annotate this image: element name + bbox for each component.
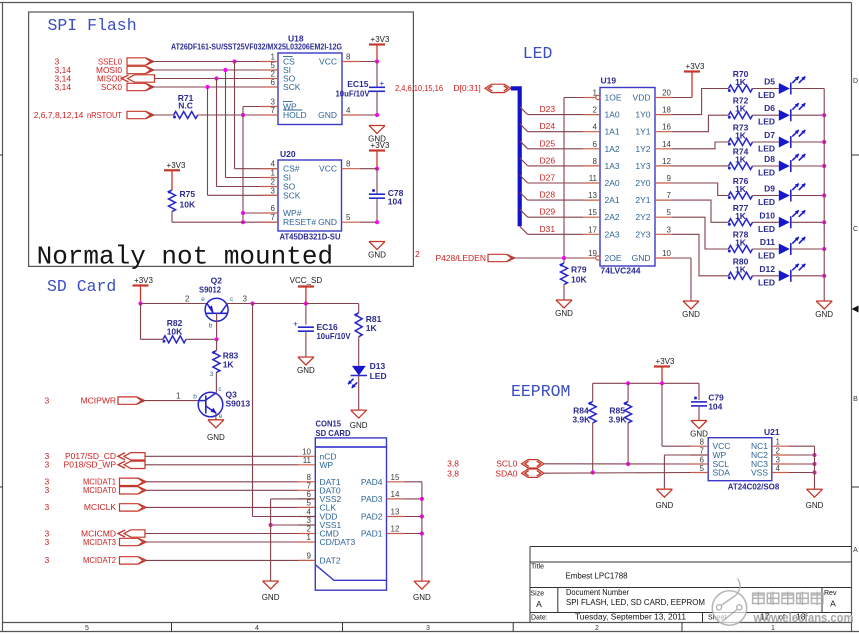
svg-text:2: 2 — [595, 625, 599, 632]
svg-text:104: 104 — [708, 402, 722, 412]
svg-text:1Y0: 1Y0 — [635, 110, 650, 120]
svg-text:D29: D29 — [540, 207, 556, 217]
svg-text:LED: LED — [758, 117, 775, 127]
svg-text:1OE: 1OE — [605, 93, 622, 103]
svg-text:2A2: 2A2 — [605, 212, 620, 222]
svg-text:nRSTOUT: nRSTOUT — [87, 110, 122, 120]
svg-text:8: 8 — [346, 160, 351, 169]
svg-text:R79: R79 — [571, 265, 587, 275]
svg-text:2A3: 2A3 — [605, 229, 620, 239]
svg-text:DAT2: DAT2 — [320, 555, 341, 565]
svg-text:6: 6 — [593, 140, 598, 149]
svg-text:4: 4 — [271, 160, 276, 169]
svg-text:11: 11 — [303, 456, 312, 465]
svg-text:b: b — [209, 323, 213, 330]
svg-text:14: 14 — [662, 140, 671, 149]
svg-text:GND: GND — [555, 309, 573, 318]
svg-text:MCIDAT3: MCIDAT3 — [83, 537, 116, 547]
svg-text:AT26DF161-SU/SST25VF032/MX25L0: AT26DF161-SU/SST25VF032/MX25L03206EM2I-1… — [171, 42, 342, 52]
svg-text:VCC: VCC — [319, 164, 337, 174]
svg-text:1A3: 1A3 — [605, 161, 620, 171]
svg-text:AT45DB321D-SU: AT45DB321D-SU — [280, 232, 341, 242]
svg-text:MCIPWR: MCIPWR — [81, 396, 116, 406]
svg-text:HOLD: HOLD — [283, 110, 307, 120]
svg-text:20: 20 — [662, 89, 671, 98]
svg-text:6: 6 — [271, 204, 276, 213]
svg-text:PAD3: PAD3 — [361, 494, 383, 504]
svg-text:1: 1 — [176, 392, 181, 401]
svg-text:LED: LED — [370, 371, 387, 381]
svg-text:A: A — [830, 599, 836, 609]
svg-text:PAD4: PAD4 — [361, 477, 383, 487]
svg-text:Q2: Q2 — [211, 276, 223, 286]
svg-text:D9: D9 — [764, 184, 775, 194]
svg-text:3: 3 — [45, 537, 50, 547]
svg-text:SCL0: SCL0 — [496, 459, 518, 469]
svg-text:EC15: EC15 — [347, 79, 369, 89]
svg-text:18: 18 — [662, 106, 671, 115]
svg-text:D25: D25 — [540, 138, 556, 148]
svg-text:3,14: 3,14 — [55, 82, 72, 92]
svg-text:2,4,6,10,15,16: 2,4,6,10,15,16 — [395, 83, 443, 93]
svg-text:D12: D12 — [759, 264, 775, 274]
svg-text:4: 4 — [255, 625, 259, 632]
svg-text:11: 11 — [589, 174, 598, 183]
svg-text:Title: Title — [531, 564, 544, 571]
svg-text:D8: D8 — [764, 154, 775, 164]
svg-text:Normaly not mounted: Normaly not mounted — [37, 242, 333, 272]
svg-text:1K: 1K — [735, 77, 747, 87]
svg-text:S9012: S9012 — [199, 285, 221, 295]
svg-text:5: 5 — [700, 464, 705, 473]
svg-text:CD/DAT3: CD/DAT3 — [320, 537, 356, 547]
svg-text:U19: U19 — [601, 76, 617, 86]
svg-text:7: 7 — [700, 447, 705, 456]
svg-text:16: 16 — [662, 123, 671, 132]
svg-text:13: 13 — [391, 508, 400, 517]
svg-text:19: 19 — [588, 249, 597, 258]
svg-text:4: 4 — [346, 106, 351, 115]
svg-text:3: 3 — [667, 225, 672, 234]
svg-text:Rev: Rev — [824, 590, 837, 597]
svg-text:WP: WP — [320, 460, 334, 470]
svg-text:1A1: 1A1 — [605, 127, 620, 137]
svg-text:2Y2: 2Y2 — [635, 212, 650, 222]
svg-text:2: 2 — [271, 178, 276, 187]
svg-text:7: 7 — [667, 191, 672, 200]
svg-text:S9013: S9013 — [226, 399, 251, 409]
svg-text:D[0:31]: D[0:31] — [453, 83, 480, 93]
svg-text:74LVC244: 74LVC244 — [601, 266, 641, 276]
svg-text:MCIDAT2: MCIDAT2 — [83, 555, 116, 565]
svg-text:8: 8 — [346, 53, 351, 62]
svg-text:GND: GND — [656, 501, 674, 510]
svg-text:+: + — [380, 79, 385, 88]
svg-text:LED: LED — [758, 251, 775, 261]
svg-text:2: 2 — [776, 447, 781, 456]
svg-text:SD CARD: SD CARD — [316, 428, 351, 438]
svg-text:12: 12 — [391, 525, 400, 534]
svg-text:D31: D31 — [540, 224, 556, 234]
svg-text:www.elecfans.com: www.elecfans.com — [753, 611, 854, 625]
svg-text:+3V3: +3V3 — [167, 161, 186, 170]
svg-text:GND: GND — [368, 251, 386, 260]
svg-text:2: 2 — [593, 106, 598, 115]
svg-text:14: 14 — [391, 490, 400, 499]
svg-text:1: 1 — [593, 89, 598, 98]
svg-text:EEPROM: EEPROM — [511, 382, 570, 401]
svg-text:3.9K: 3.9K — [609, 414, 628, 424]
svg-text:1K: 1K — [735, 211, 747, 221]
svg-text:2A1: 2A1 — [605, 195, 620, 205]
svg-text:VDD: VDD — [633, 93, 651, 103]
svg-text:B: B — [853, 396, 858, 403]
svg-text:1K: 1K — [735, 238, 747, 248]
svg-text:SCK0: SCK0 — [101, 82, 122, 92]
svg-text:2,6,7,8,12,14: 2,6,7,8,12,14 — [34, 110, 84, 120]
svg-text:3: 3 — [45, 555, 50, 565]
svg-text:GND: GND — [318, 217, 337, 227]
svg-text:10K: 10K — [571, 275, 587, 285]
svg-text:3: 3 — [271, 186, 276, 195]
svg-text:LED: LED — [523, 44, 553, 63]
svg-text:GND: GND — [207, 433, 225, 442]
svg-text:U20: U20 — [280, 149, 296, 159]
svg-text:+: + — [293, 320, 298, 329]
svg-text:SCK: SCK — [283, 82, 301, 92]
svg-text:10uF/10V: 10uF/10V — [336, 89, 370, 99]
svg-text:b: b — [193, 394, 197, 401]
svg-text:C: C — [853, 226, 858, 233]
svg-text:10K: 10K — [167, 327, 183, 337]
svg-text:1K: 1K — [735, 155, 747, 165]
svg-text:1: 1 — [271, 169, 276, 178]
svg-text:A: A — [853, 547, 858, 554]
svg-text:15: 15 — [588, 208, 597, 217]
svg-text:4: 4 — [593, 123, 598, 132]
svg-text:15: 15 — [391, 473, 400, 482]
svg-text:1: 1 — [771, 625, 775, 632]
svg-text:PAD2: PAD2 — [361, 512, 383, 522]
svg-text:e: e — [201, 296, 205, 303]
svg-text:SDA: SDA — [713, 468, 731, 478]
svg-text:MCIDAT0: MCIDAT0 — [83, 485, 116, 495]
svg-text:SPI FLASH, LED, SD CARD, EEPRO: SPI FLASH, LED, SD CARD, EEPROM — [566, 597, 705, 607]
svg-text:6: 6 — [271, 78, 276, 87]
svg-text:PAD1: PAD1 — [361, 529, 383, 539]
svg-text:LED: LED — [758, 90, 775, 100]
svg-text:Embest LPC1788: Embest LPC1788 — [566, 571, 628, 581]
svg-text:LED: LED — [758, 144, 775, 154]
svg-text:GND: GND — [318, 110, 337, 120]
svg-text:D10: D10 — [759, 210, 775, 220]
svg-text:3.9K: 3.9K — [572, 414, 591, 424]
svg-text:3,8: 3,8 — [447, 459, 459, 469]
svg-text:GND: GND — [413, 593, 431, 602]
svg-text:1Y2: 1Y2 — [635, 144, 650, 154]
svg-text:3: 3 — [243, 295, 248, 304]
svg-text:9: 9 — [307, 551, 312, 560]
svg-text:D: D — [853, 78, 858, 85]
svg-text:9: 9 — [667, 174, 672, 183]
svg-text:GND: GND — [350, 421, 368, 430]
svg-text:U21: U21 — [764, 427, 780, 437]
svg-text:+3V3: +3V3 — [686, 62, 705, 71]
svg-text:1Y3: 1Y3 — [635, 161, 650, 171]
svg-text:N.C: N.C — [178, 101, 193, 111]
svg-text:SDA0: SDA0 — [495, 469, 517, 479]
svg-text:1K: 1K — [223, 359, 235, 369]
svg-text:GND: GND — [682, 310, 700, 319]
svg-text:3: 3 — [210, 371, 214, 378]
svg-text:LED: LED — [758, 168, 775, 178]
svg-text:3,8: 3,8 — [447, 469, 459, 479]
svg-text:1: 1 — [776, 438, 781, 447]
svg-text:2: 2 — [415, 249, 420, 259]
svg-text:D5: D5 — [764, 77, 775, 87]
svg-text:17: 17 — [588, 225, 597, 234]
svg-text:8: 8 — [593, 157, 598, 166]
svg-text:D11: D11 — [760, 237, 775, 247]
svg-text:LED: LED — [758, 277, 775, 287]
svg-text:D6: D6 — [764, 103, 775, 113]
svg-text:RESET#: RESET# — [283, 217, 316, 227]
svg-text:7: 7 — [271, 213, 276, 222]
svg-text:+3V3: +3V3 — [134, 276, 153, 285]
svg-text:Size: Size — [531, 591, 545, 598]
svg-text:2OE: 2OE — [605, 253, 622, 263]
svg-text:5: 5 — [346, 213, 351, 222]
svg-text:D28: D28 — [540, 190, 556, 200]
svg-text:VCC: VCC — [319, 57, 337, 67]
svg-text:13: 13 — [588, 191, 597, 200]
svg-text:12: 12 — [662, 157, 671, 166]
svg-text:D23: D23 — [540, 104, 556, 114]
svg-text:2Y1: 2Y1 — [635, 195, 650, 205]
svg-text:3: 3 — [45, 460, 50, 470]
svg-text:10: 10 — [662, 249, 671, 258]
svg-text:1A2: 1A2 — [605, 144, 620, 154]
svg-text:LED: LED — [758, 197, 775, 207]
svg-text:GND: GND — [815, 310, 833, 319]
svg-text:5: 5 — [307, 498, 312, 507]
svg-text:D7: D7 — [764, 130, 775, 140]
svg-text:GND: GND — [262, 593, 280, 602]
svg-text:D24: D24 — [540, 121, 556, 131]
svg-text:+3V3: +3V3 — [656, 357, 675, 366]
svg-text:1A0: 1A0 — [605, 110, 620, 120]
svg-text:1K: 1K — [735, 264, 747, 274]
svg-text:2Y3: 2Y3 — [635, 229, 650, 239]
svg-text:104: 104 — [388, 197, 402, 207]
svg-text:4: 4 — [776, 464, 781, 473]
svg-text:1K: 1K — [735, 131, 747, 141]
svg-text:SPI Flash: SPI Flash — [48, 16, 137, 35]
svg-text:P018/SD_WP: P018/SD_WP — [64, 460, 117, 470]
svg-text:R75: R75 — [180, 189, 196, 199]
svg-text:3: 3 — [45, 396, 50, 406]
svg-text:D27: D27 — [540, 173, 556, 183]
svg-text:SCK: SCK — [283, 190, 301, 200]
svg-text:10K: 10K — [180, 200, 196, 210]
svg-text:+3V3: +3V3 — [371, 141, 390, 150]
svg-text:P428/LEDEN: P428/LEDEN — [435, 253, 486, 263]
svg-text:10uF/10V: 10uF/10V — [317, 331, 351, 341]
svg-text:D26: D26 — [540, 155, 556, 165]
svg-text:+3V3: +3V3 — [371, 35, 390, 44]
svg-text:A: A — [536, 599, 542, 609]
svg-text:GND: GND — [632, 253, 651, 263]
svg-text:3: 3 — [45, 502, 50, 512]
svg-text:Document Number: Document Number — [566, 587, 629, 597]
svg-text:e: e — [219, 413, 223, 420]
svg-text:SD Card: SD Card — [47, 277, 116, 296]
svg-text:5: 5 — [667, 208, 672, 217]
svg-text:VSS: VSS — [751, 468, 768, 478]
svg-text:1K: 1K — [366, 323, 378, 333]
svg-text:8: 8 — [700, 438, 705, 447]
svg-text:1: 1 — [307, 533, 312, 542]
svg-text:3: 3 — [426, 625, 430, 632]
svg-text:3: 3 — [45, 485, 50, 495]
svg-text:Tuesday, September 13, 2011: Tuesday, September 13, 2011 — [575, 611, 686, 621]
svg-text:7: 7 — [271, 106, 276, 115]
svg-text:2: 2 — [185, 295, 190, 304]
svg-text:5: 5 — [85, 625, 89, 632]
svg-text:AT24C02/SO8: AT24C02/SO8 — [728, 482, 780, 492]
svg-text:2Y0: 2Y0 — [635, 178, 650, 188]
svg-text:2A0: 2A0 — [605, 178, 620, 188]
svg-text:GND: GND — [806, 501, 824, 510]
svg-text:Date:: Date: — [531, 614, 548, 621]
svg-text:D13: D13 — [370, 361, 386, 371]
svg-text:MCICLK: MCICLK — [84, 502, 116, 512]
svg-text:GND: GND — [297, 366, 315, 375]
svg-text:VCC_SD: VCC_SD — [290, 276, 323, 285]
svg-text:1K: 1K — [735, 184, 747, 194]
svg-text:1K: 1K — [735, 104, 747, 114]
svg-text:LED: LED — [758, 224, 775, 234]
svg-text:1Y1: 1Y1 — [635, 127, 650, 137]
